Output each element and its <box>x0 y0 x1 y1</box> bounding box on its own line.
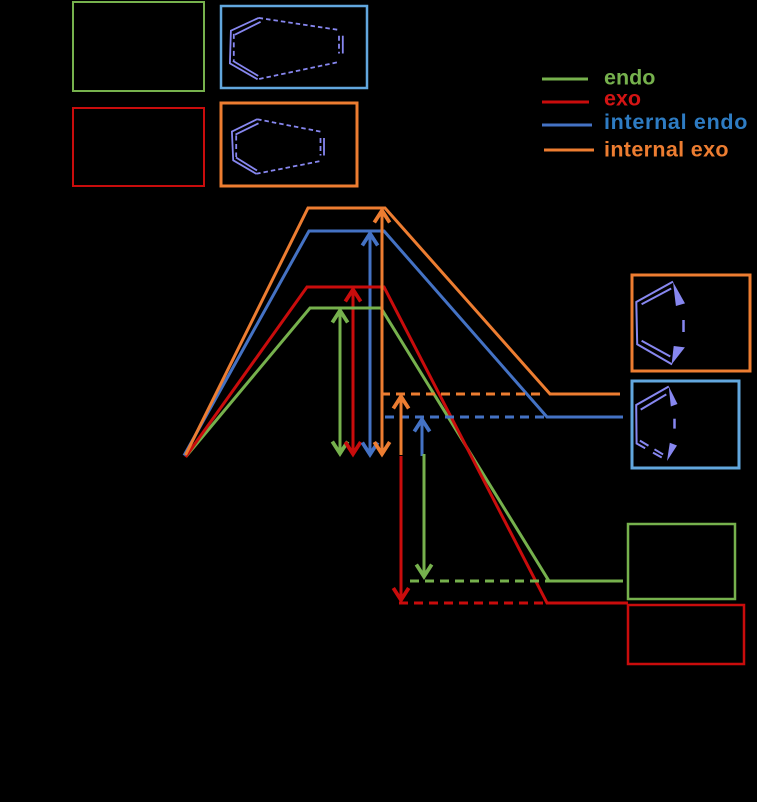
box internal exo TS (orange, top) <box>221 103 357 186</box>
svg-text:internal endo: internal endo <box>604 110 748 134</box>
molecule internal exo TS (purple hexagon) <box>232 119 324 174</box>
dashed level endo product (green) <box>410 580 549 583</box>
dashed level internal endo (blue) <box>385 416 546 419</box>
box endo TS (green, top-left) <box>73 2 204 91</box>
box endo product (green, right) <box>628 524 735 599</box>
arrow internal endo reaction energy (blue up) <box>414 420 429 457</box>
dashed level exo product (red) <box>399 602 547 605</box>
box internal endo product (light blue, right) <box>632 381 739 468</box>
energy curve exo (red) <box>186 287 629 603</box>
arrow internal exo reaction energy (orange up) <box>393 397 408 456</box>
svg-text:exo: exo <box>604 86 641 110</box>
double arrow endo activation (green) <box>332 311 347 454</box>
double arrow exo activation (red) <box>345 290 360 455</box>
legend line internal endo <box>542 124 592 127</box>
arrow endo reaction energy (green down) <box>416 454 431 577</box>
double arrow internal exo activation (orange) <box>374 211 389 455</box>
molecule internal endo TS (purple hexagon) <box>230 18 343 79</box>
wedge bonds internal exo product <box>672 282 685 364</box>
arrow exo reaction energy (red down) <box>393 456 408 600</box>
molecule internal exo product (purple ring with wedges) <box>636 282 683 365</box>
energy curve internal exo (orange) <box>186 208 621 455</box>
double arrow internal endo activation (blue) <box>362 234 377 455</box>
box internal exo product (orange, right) <box>632 275 750 371</box>
energy curve endo (green) <box>186 308 623 581</box>
svg-text:internal exo: internal exo <box>604 137 729 161</box>
box internal endo TS (light blue, top) <box>221 6 367 88</box>
legend line endo <box>542 78 588 81</box>
energy curve internal endo (blue) <box>184 231 623 456</box>
dashed level internal exo (orange) <box>381 393 546 396</box>
box exo product (red, right) <box>628 605 744 664</box>
molecule internal endo product (purple ring with wedges) <box>636 387 674 461</box>
wedge bonds internal endo product <box>667 387 678 462</box>
box exo TS (red, top-left) <box>73 108 204 186</box>
legend line exo <box>542 101 589 104</box>
legend line internal exo <box>544 149 594 152</box>
